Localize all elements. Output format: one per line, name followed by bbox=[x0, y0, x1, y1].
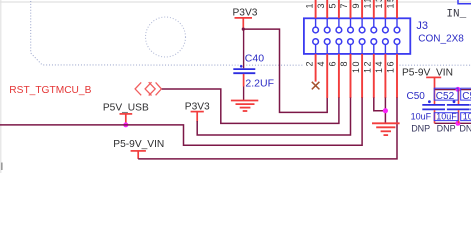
pin 7 circle bbox=[348, 27, 354, 33]
pin 1 circle bbox=[313, 27, 319, 33]
pin 3 wire (top) bbox=[326, 0, 328, 18]
svg-text:13: 13 bbox=[374, 0, 384, 9]
svg-text:10: 10 bbox=[351, 60, 361, 73]
pin 6 circle bbox=[336, 39, 342, 45]
wire P3V3 top rail bbox=[243, 29, 327, 112]
svg-text:J3: J3 bbox=[416, 20, 428, 32]
board outline (dotted) bbox=[31, 1, 303, 65]
svg-text:C50: C50 bbox=[407, 91, 426, 102]
capacitor C50 bbox=[422, 90, 445, 124]
svg-text:C54: C54 bbox=[462, 91, 471, 102]
pin 12 circle bbox=[371, 39, 377, 45]
svg-text:P3V3: P3V3 bbox=[233, 8, 258, 19]
wire pin 12 to ground bbox=[374, 98, 386, 111]
svg-text:4: 4 bbox=[316, 60, 326, 67]
svg-text:10uF: 10uF bbox=[463, 111, 471, 121]
svg-text:16: 16 bbox=[386, 60, 396, 73]
ground (C40) bbox=[231, 101, 258, 112]
svg-text:2: 2 bbox=[304, 60, 314, 67]
svg-text:CON_2X8: CON_2X8 bbox=[418, 34, 464, 45]
label C54 box bbox=[461, 88, 471, 100]
svg-text:6: 6 bbox=[328, 60, 338, 67]
value 10uF box (C54) bbox=[461, 113, 471, 121]
svg-text:3: 3 bbox=[316, 2, 326, 9]
connector J3 box bbox=[304, 18, 410, 54]
pin 6 stub bbox=[338, 54, 340, 98]
svg-text:DNP: DNP bbox=[459, 123, 471, 133]
junction C52 top bbox=[455, 87, 460, 92]
pin 11 wire (top) bbox=[373, 0, 375, 18]
svg-text:10uF: 10uF bbox=[411, 111, 432, 121]
pin 9 circle bbox=[359, 27, 365, 33]
capacitor C40 bbox=[233, 29, 255, 100]
svg-text:10uF: 10uF bbox=[436, 111, 457, 121]
svg-text:C52: C52 bbox=[436, 91, 455, 102]
pin 5 circle bbox=[336, 27, 342, 33]
capacitor C54 plates (cut) bbox=[470, 104, 471, 106]
svg-text:DNP: DNP bbox=[437, 123, 456, 133]
pin 3 circle bbox=[324, 27, 330, 33]
svg-text:C40: C40 bbox=[245, 53, 264, 65]
svg-text:RST_TGTMCU_B: RST_TGTMCU_B bbox=[9, 85, 91, 96]
junction C52 bottom bbox=[455, 121, 460, 126]
pin 13 wire (top) bbox=[384, 0, 386, 18]
svg-text:15: 15 bbox=[386, 0, 396, 9]
pin 2 stub bbox=[315, 54, 317, 82]
pin 8 circle bbox=[348, 39, 354, 45]
svg-text:IN_: IN_ bbox=[446, 8, 466, 20]
svg-text:P5V_USB: P5V_USB bbox=[103, 102, 149, 113]
pin 12 stub bbox=[373, 54, 375, 98]
pin 11 circle bbox=[371, 27, 377, 33]
ground (right) bbox=[372, 123, 400, 135]
svg-text:12: 12 bbox=[363, 60, 373, 73]
svg-text:14: 14 bbox=[374, 60, 384, 73]
board outline dotted segment right bbox=[400, 64, 471, 66]
junction P5V_USB bbox=[123, 122, 128, 127]
label C52 box bbox=[434, 88, 458, 100]
capacitor C52 bbox=[447, 90, 470, 124]
pin 4 circle bbox=[324, 39, 330, 45]
wire RST to pin 6 bbox=[162, 89, 339, 123]
pin 10 stub bbox=[361, 54, 363, 98]
wire P5-9V_VIN to pin 16 bbox=[138, 98, 397, 159]
pin 13 circle bbox=[383, 27, 389, 33]
pin 9 wire (top) bbox=[361, 0, 363, 18]
wire pin 14 to ground bbox=[384, 98, 386, 124]
off-page connector symbol bbox=[135, 82, 161, 95]
pin 15 circle bbox=[394, 27, 400, 33]
pin 14 stub bbox=[384, 54, 386, 98]
pin 1 wire (top) bbox=[315, 0, 317, 18]
pin 16 stub bbox=[396, 54, 398, 98]
block corner (cut) bbox=[458, 0, 471, 4]
wire P3V3 to pin 8 bbox=[197, 98, 350, 136]
svg-text:8: 8 bbox=[339, 60, 349, 67]
wire cap bottom rail bbox=[435, 122, 471, 124]
no-connect X pin 2 bbox=[312, 82, 320, 90]
svg-text:1: 1 bbox=[304, 2, 314, 9]
board outline circle (dotted) bbox=[146, 17, 186, 57]
svg-text:DNP: DNP bbox=[411, 123, 430, 133]
pin 2 circle bbox=[313, 39, 319, 45]
svg-text:7: 7 bbox=[339, 2, 349, 9]
junction pin12/pin14 bbox=[383, 108, 388, 113]
svg-text:5: 5 bbox=[328, 2, 338, 9]
svg-text:2.2UF: 2.2UF bbox=[245, 77, 274, 89]
svg-text:11: 11 bbox=[363, 0, 373, 9]
pin 8 stub bbox=[350, 54, 352, 98]
svg-text:P5-9V_VIN: P5-9V_VIN bbox=[113, 139, 164, 150]
junction P3V3/C40 bbox=[242, 28, 245, 31]
wire cap top rail bbox=[435, 89, 471, 91]
pin 7 wire (top) bbox=[350, 0, 352, 18]
svg-text:9: 9 bbox=[351, 2, 361, 9]
pin 10 circle bbox=[359, 39, 365, 45]
pin 15 wire (top) bbox=[396, 0, 398, 18]
pin 4 stub bbox=[326, 54, 328, 98]
value 10uF box (C52) bbox=[434, 113, 458, 121]
pin 16 circle bbox=[394, 39, 400, 45]
wire P5V_USB to pin 10 bbox=[0, 98, 362, 146]
pin 5 wire (top) bbox=[338, 0, 340, 18]
pin 14 circle bbox=[383, 39, 389, 45]
svg-text:P3V3: P3V3 bbox=[185, 101, 210, 112]
